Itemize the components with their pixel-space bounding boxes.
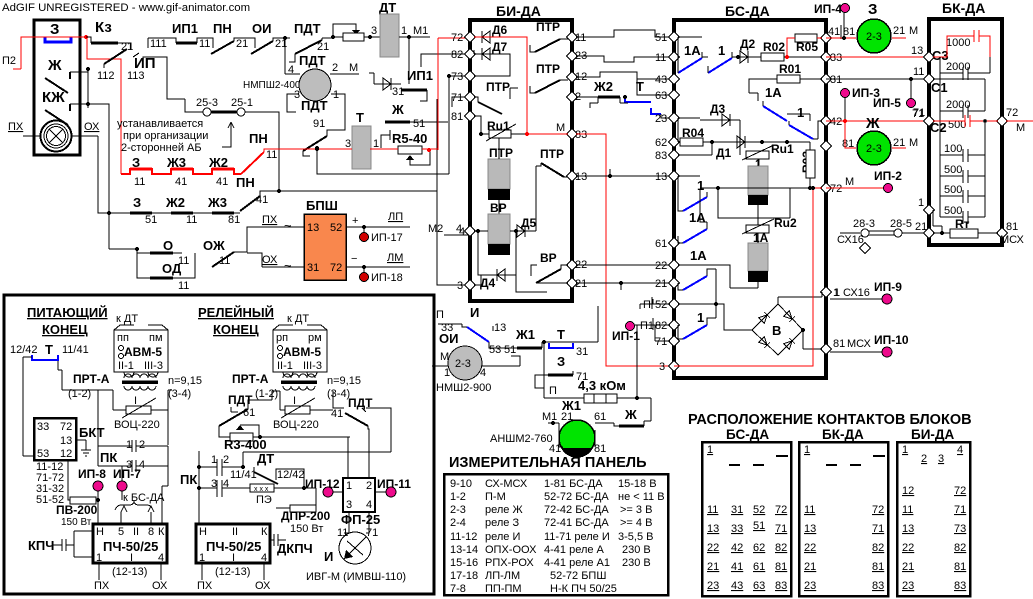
svg-text:ИП-9: ИП-9: [874, 280, 902, 294]
svg-text:n=9,15: n=9,15: [327, 375, 361, 387]
svg-text:82: 82: [872, 542, 884, 554]
svg-text:21: 21: [902, 561, 914, 573]
svg-text:К: К: [261, 526, 268, 538]
svg-text:61: 61: [655, 238, 667, 250]
svg-text:11: 11: [266, 149, 277, 161]
svg-text:61: 61: [243, 407, 255, 419]
svg-text:8: 8: [148, 526, 154, 538]
svg-text:М: М: [1016, 122, 1025, 134]
svg-text:ПТР: ПТР: [536, 62, 560, 76]
svg-text:1: 1: [444, 367, 450, 379]
svg-text:М: М: [556, 122, 565, 134]
pin 1: [923, 204, 934, 215]
wires ФП-25 to lamp: [344, 512, 369, 533]
wire lamp left: [23, 135, 40, 137]
svg-text:КПЧ: КПЧ: [28, 538, 54, 553]
svg-text:В: В: [772, 323, 781, 338]
svg-text:1: 1: [902, 444, 908, 456]
contact ПДТ diagonal: [295, 40, 322, 54]
svg-text:72: 72: [60, 421, 72, 433]
wire ДТ right: [399, 36, 430, 38]
svg-text:ИВГ-М (ИМВШ-110): ИВГ-М (ИМВШ-110): [306, 571, 406, 583]
svg-text:1: 1: [707, 444, 713, 456]
svg-text:500: 500: [944, 184, 962, 196]
contact 1А top: [678, 58, 702, 73]
block АВМ-5 right: [273, 330, 327, 372]
wire T right hook: [381, 130, 390, 148]
contact 1А mid: [763, 106, 787, 121]
svg-text:ОХ: ОХ: [262, 254, 278, 266]
relay НМПШ2-400 body: [299, 69, 331, 101]
svg-text:Д4: Д4: [480, 276, 496, 290]
wire ИП-4 vert: [842, 36, 846, 40]
wire 72 row inside: [700, 187, 822, 189]
svg-text:~: ~: [284, 218, 292, 233]
svg-text:ПДТ: ПДТ: [301, 98, 328, 113]
svg-text:Ж2: Ж2: [593, 79, 613, 94]
svg-text:2-3: 2-3: [455, 358, 471, 370]
red row bars: [121, 169, 163, 174]
svg-text:ИП-7: ИП-7: [113, 467, 141, 481]
svg-text:ПВ-200: ПВ-200: [56, 503, 98, 517]
svg-text:РАСПОЛОЖЕНИЕ КОНТАКТОВ БЛОКОВ: РАСПОЛОЖЕНИЕ КОНТАКТОВ БЛОКОВ: [688, 412, 972, 428]
svg-text:ВР: ВР: [490, 201, 507, 215]
block ФП-25: [343, 478, 375, 512]
svg-text:3: 3: [346, 499, 352, 511]
svg-text:ЛП: ЛП: [388, 211, 403, 223]
svg-text:23: 23: [707, 580, 719, 592]
svg-text:СХ16: СХ16: [843, 287, 870, 299]
wire 112 down: [103, 64, 105, 68]
svg-text:3: 3: [345, 138, 351, 150]
svg-text:72: 72: [775, 504, 787, 516]
svg-text:21: 21: [655, 278, 667, 290]
svg-text:КОНЕЦ: КОНЕЦ: [213, 322, 259, 337]
svg-text:ИП-18: ИП-18: [371, 272, 403, 284]
svg-text:33: 33: [830, 52, 842, 64]
svg-text:4-41 реле А1: 4-41 реле А1: [544, 557, 610, 569]
svg-text:73: 73: [954, 523, 966, 535]
svg-text:31: 31: [830, 74, 842, 86]
svg-text:4: 4: [366, 499, 372, 511]
svg-text:72: 72: [1006, 107, 1018, 119]
svg-text:Т: Т: [557, 327, 565, 342]
svg-text:2-3: 2-3: [450, 504, 466, 516]
svg-text:пм: пм: [149, 332, 163, 344]
svg-text:3: 3: [457, 280, 463, 292]
svg-text:83: 83: [954, 580, 966, 592]
svg-text:13-14: 13-14: [450, 544, 478, 556]
ground symbol: [76, 440, 91, 456]
svg-text:ПРТ-А: ПРТ-А: [232, 372, 269, 386]
wire bridge right-81: [803, 330, 822, 349]
svg-text:ПТР: ПТР: [540, 147, 564, 161]
diode ИП1: [383, 78, 401, 90]
svg-text:ПРТ-А: ПРТ-А: [73, 372, 110, 386]
БС-ДА right pins: [820, 25, 855, 355]
svg-text:1-2: 1-2: [450, 491, 466, 503]
wire pot to ДТ: [364, 36, 380, 38]
red М83 out: [576, 134, 670, 366]
svg-text:Д6: Д6: [492, 23, 508, 37]
wire 22-22: [576, 264, 670, 266]
svg-text:23: 23: [804, 580, 816, 592]
svg-text:13: 13: [707, 523, 719, 535]
svg-text:41: 41: [175, 176, 187, 188]
svg-text:ОИ: ОИ: [252, 21, 271, 36]
black web mid: [317, 148, 449, 174]
wire П52 left: [640, 299, 670, 309]
svg-text:52: 52: [330, 222, 342, 234]
svg-text:13: 13: [60, 435, 72, 447]
svg-text:11/41: 11/41: [230, 469, 257, 481]
note arrow: [222, 122, 234, 147]
table body: [444, 474, 668, 595]
frame wires right coil: [280, 391, 344, 410]
svg-text:72: 72: [830, 183, 842, 195]
pin 21: [923, 227, 934, 238]
svg-text:Ж2: Ж2: [165, 195, 185, 210]
svg-text:72: 72: [954, 485, 966, 497]
contact ПТР left: [478, 102, 502, 114]
svg-text:73: 73: [451, 71, 463, 83]
svg-text:72: 72: [330, 262, 342, 274]
svg-text:О: О: [163, 238, 173, 253]
svg-text:I: I: [130, 552, 133, 564]
wire lamp right: [72, 135, 98, 137]
red drop to Ж lamp: [845, 121, 856, 148]
frame wires left coil: [98, 390, 172, 445]
svg-text:82: 82: [451, 49, 463, 61]
svg-text:31: 31: [731, 504, 743, 516]
svg-text:ОИ: ОИ: [439, 331, 458, 346]
svg-text:I: I: [293, 395, 296, 407]
БИ-ДА left pins: [451, 31, 476, 290]
wire red П2 up: [13, 37, 87, 69]
svg-text:52-72 БПШ: 52-72 БПШ: [550, 570, 606, 582]
svg-text:М2: М2: [428, 223, 443, 235]
contact ВР bottom: [536, 269, 561, 283]
svg-text:П: П: [436, 309, 444, 321]
svg-text:2-3: 2-3: [866, 31, 882, 43]
svg-text:31: 31: [576, 346, 588, 358]
svg-text:x x x: x x x: [254, 486, 269, 493]
table БК-ДА box: [799, 442, 888, 596]
svg-text:БИ-ДА: БИ-ДА: [911, 427, 955, 442]
svg-text:4-41 реле А: 4-41 реле А: [544, 544, 605, 556]
svg-text:З: З: [868, 1, 877, 18]
svg-text:МСХ: МСХ: [1000, 234, 1024, 246]
svg-text:42: 42: [731, 542, 743, 554]
svg-text:ПТР: ПТР: [486, 80, 510, 94]
junction: [84, 35, 88, 39]
svg-text:2: 2: [139, 439, 145, 451]
svg-text:28-5: 28-5: [890, 218, 912, 230]
svg-text:БК-ДА: БК-ДА: [822, 427, 864, 442]
wire 11-23 between blocks: [576, 30, 670, 37]
wire М2: [444, 234, 470, 236]
wire НМПШ 3-1 frame: [287, 94, 345, 112]
svg-text:Ж: Ж: [391, 102, 404, 117]
wire to bridge: [716, 304, 752, 330]
svg-text:13: 13: [902, 523, 914, 535]
svg-text:БК-ДА: БК-ДА: [942, 0, 985, 16]
svg-text:2: 2: [921, 453, 927, 465]
svg-text:АНШМ2-760: АНШМ2-760: [490, 433, 553, 445]
test point ИП-17: [362, 225, 366, 229]
contact Ж bar: [619, 425, 644, 428]
svg-text:ИП-3: ИП-3: [852, 86, 880, 100]
svg-text:R5-40: R5-40: [392, 131, 427, 146]
svg-text:23: 23: [655, 113, 667, 125]
svg-text:21: 21: [236, 38, 248, 50]
svg-text:МСХ: МСХ: [847, 338, 871, 350]
red wire Ж right: [892, 147, 906, 149]
contact 1 top: [708, 58, 732, 73]
wire to pot: [322, 37, 345, 38]
svg-text:II: II: [133, 526, 139, 538]
svg-text:(1-2): (1-2): [255, 388, 278, 400]
svg-text:150 Вт: 150 Вт: [290, 523, 323, 535]
svg-text:53: 53: [37, 448, 49, 460]
svg-text:Д3: Д3: [710, 102, 726, 116]
svg-text:ПХ: ПХ: [262, 214, 278, 226]
svg-text:Д5: Д5: [521, 216, 537, 230]
svg-text:4: 4: [480, 367, 486, 379]
svg-text:11: 11: [178, 280, 189, 292]
svg-text:31: 31: [392, 86, 404, 98]
svg-text:(3-4): (3-4): [327, 388, 350, 400]
svg-text:1: 1: [199, 552, 205, 564]
svg-text:М: М: [440, 351, 449, 363]
svg-text:31: 31: [307, 262, 319, 274]
contact Ж: [45, 72, 70, 93]
block БК-ДА body: [929, 19, 1002, 245]
svg-text:ЛП-ЛМ: ЛП-ЛМ: [485, 570, 520, 582]
wire ПДТ91 to red node: [303, 112, 345, 156]
svg-text:к БС-ДА: к БС-ДА: [123, 492, 165, 504]
wire 113: [143, 57, 185, 99]
svg-text:100: 100: [944, 143, 962, 155]
svg-text:2-сторонней АБ: 2-сторонней АБ: [121, 142, 202, 154]
svg-text:11: 11: [804, 504, 815, 516]
svg-text:2-3: 2-3: [866, 143, 882, 155]
svg-text:ПП-ПМ: ПП-ПМ: [485, 583, 522, 595]
wire НМПШ left down: [284, 38, 286, 74]
svg-text:Ж: Ж: [47, 57, 62, 74]
wire Кз right down: [118, 43, 131, 49]
svg-text:R3-400: R3-400: [224, 437, 267, 452]
svg-text:21: 21: [893, 137, 905, 149]
svg-text:1: 1: [804, 444, 810, 456]
svg-text:63: 63: [753, 580, 765, 592]
svg-text:Т: Т: [356, 110, 364, 125]
svg-text:13: 13: [911, 45, 923, 57]
svg-text:НМПШ2-400: НМПШ2-400: [243, 80, 301, 91]
svg-text:к ДТ: к ДТ: [116, 313, 138, 325]
svg-text:13: 13: [804, 523, 816, 535]
wire 21-21: [576, 282, 670, 284]
svg-text:БПШ: БПШ: [306, 198, 338, 213]
svg-text:рп: рп: [276, 332, 288, 344]
contact КЖ: [45, 104, 70, 125]
svg-text:ПДТ: ПДТ: [294, 21, 321, 36]
svg-text:2: 2: [332, 62, 338, 74]
contact T blue bracket: [32, 355, 58, 360]
wire КЖ out long: [70, 103, 88, 105]
svg-text:22: 22: [902, 542, 914, 554]
wire 71 left stub: [655, 325, 670, 341]
svg-text:21: 21: [317, 41, 329, 53]
svg-text:43: 43: [731, 580, 743, 592]
relay coil Ru1: [748, 166, 768, 195]
svg-text:ПН: ПН: [236, 175, 255, 190]
svg-text:Д1: Д1: [716, 146, 732, 160]
wire НМПШ 2-М: [285, 73, 359, 75]
contact ОЖ diagonal: [212, 252, 234, 267]
svg-text:72-42 БС-ДА: 72-42 БС-ДА: [544, 504, 609, 516]
svg-text:ИЗМЕРИТЕЛЬНАЯ ПАНЕЛЬ: ИЗМЕРИТЕЛЬНАЯ ПАНЕЛЬ: [449, 455, 647, 471]
contact Ж2 bar: [598, 96, 620, 99]
svg-text:Ж: Ж: [865, 115, 880, 132]
svg-text:~: ~: [284, 258, 292, 273]
wire bridge top: [778, 292, 822, 304]
wire ЛМ: [346, 266, 410, 268]
wire down from Ж1: [543, 342, 545, 398]
svg-text:9-10: 9-10: [450, 478, 472, 490]
svg-text:15-18 В: 15-18 В: [618, 478, 657, 490]
svg-text:1: 1: [333, 89, 339, 101]
svg-text:(1-2): (1-2): [68, 388, 91, 400]
svg-text:БС-ДА: БС-ДА: [726, 427, 769, 442]
contact ПН red diagonal: [241, 152, 264, 174]
contact 1 mid: [789, 125, 813, 139]
wire 82-73 frame: [474, 50, 510, 76]
svg-text:81: 81: [872, 561, 884, 573]
svg-text:63: 63: [655, 90, 667, 102]
red wire 33-С3: [826, 56, 925, 58]
svg-text:51: 51: [504, 344, 516, 356]
svg-text:81: 81: [954, 561, 966, 573]
svg-text:1: 1: [126, 439, 132, 451]
svg-text:71: 71: [954, 504, 966, 516]
svg-text:1-81 БС-ДА: 1-81 БС-ДА: [544, 478, 603, 490]
svg-text:51: 51: [655, 32, 667, 44]
svg-text:РПХ-РОХ: РПХ-РОХ: [485, 557, 534, 569]
svg-text:72-41 БС-ДА: 72-41 БС-ДА: [544, 517, 609, 529]
test point ИП-3: [841, 89, 850, 98]
svg-text:81: 81: [833, 338, 845, 350]
svg-text:11: 11: [186, 214, 197, 226]
svg-text:71: 71: [775, 523, 787, 535]
svg-text:71: 71: [872, 523, 884, 535]
svg-text:11/41: 11/41: [62, 344, 89, 356]
svg-text:ПХ: ПХ: [197, 580, 213, 592]
svg-text:БКТ: БКТ: [79, 425, 105, 440]
svg-text:3: 3: [659, 361, 665, 373]
wire pin1: [933, 210, 942, 226]
svg-text:52: 52: [753, 504, 765, 516]
svg-text:М: М: [349, 62, 358, 74]
svg-text:AdGIF UNREGISTERED - www.gif-a: AdGIF UNREGISTERED - www.gif-animator.co…: [2, 2, 250, 14]
svg-text:И: И: [470, 305, 479, 320]
svg-text:1А: 1А: [689, 210, 706, 225]
svg-text:АВМ-5: АВМ-5: [283, 345, 321, 359]
junction: [283, 36, 287, 40]
wire red down-right: [87, 37, 121, 174]
svg-text:11: 11: [913, 66, 924, 78]
svg-text:21: 21: [707, 561, 719, 573]
svg-text:ДТ: ДТ: [257, 451, 274, 466]
svg-text:ИП-12: ИП-12: [305, 477, 340, 491]
svg-text:ПЭ: ПЭ: [256, 494, 272, 506]
svg-text:ОХ: ОХ: [84, 121, 100, 133]
svg-text:71: 71: [451, 92, 463, 104]
svg-text:ФП-25: ФП-25: [341, 512, 380, 527]
svg-text:ОПХ-ООХ: ОПХ-ООХ: [485, 544, 537, 556]
contact И blue diagonal: [467, 327, 489, 342]
contact ПДТ-91 diagonal: [303, 136, 327, 151]
svg-text:25-3: 25-3: [196, 97, 218, 109]
svg-text:ОД: ОД: [162, 261, 182, 276]
wire ЛП: [346, 226, 410, 228]
svg-text:150 Вт: 150 Вт: [61, 517, 92, 528]
left verticals: [108, 121, 110, 249]
contact 1 bottom: [683, 325, 707, 339]
svg-text:С2: С2: [930, 120, 947, 135]
svg-text:I: I: [232, 552, 235, 564]
svg-text:Н: Н: [96, 526, 104, 538]
svg-text:71: 71: [913, 107, 925, 119]
svg-text:не < 11 В: не < 11 В: [618, 491, 665, 503]
svg-text:I: I: [134, 395, 137, 407]
svg-text:Д2: Д2: [740, 37, 756, 51]
svg-text:81: 81: [594, 443, 606, 455]
svg-text:Ru1: Ru1: [771, 142, 794, 156]
table БС-ДА box: [702, 442, 791, 596]
svg-text:1: 1: [833, 287, 839, 299]
svg-text:ОХ: ОХ: [152, 580, 168, 592]
wire pin3: [437, 191, 470, 285]
svg-text:ВОЦ-220: ВОЦ-220: [114, 419, 160, 431]
svg-text:РЕЛЕЙНЫЙ: РЕЛЕЙНЫЙ: [198, 305, 274, 320]
resistor ПВ-200: [70, 497, 96, 504]
svg-text:при организации: при организации: [123, 130, 208, 142]
svg-text:ПХ: ПХ: [94, 580, 110, 592]
pin 72 М right: [996, 115, 1007, 126]
resistor 4,3 кОм body: [584, 394, 617, 403]
svg-text:23: 23: [902, 580, 914, 592]
red wire inside to М83: [474, 37, 568, 134]
block ПЧ-50/25 left: [93, 524, 167, 563]
wire 73 row: [449, 75, 469, 77]
svg-text:П: П: [643, 299, 651, 311]
svg-text:С1: С1: [931, 80, 948, 95]
svg-text:12/42: 12/42: [277, 469, 305, 481]
wire 13-13: [576, 175, 670, 177]
block ПЧ-50/25 right: [196, 524, 270, 563]
svg-text:1: 1: [96, 552, 102, 564]
svg-text:230 В: 230 В: [622, 544, 651, 556]
wire 22 row: [678, 265, 758, 288]
lamp symbol: [41, 121, 72, 152]
svg-text:Д7: Д7: [492, 40, 508, 54]
wire М1 down: [408, 37, 410, 84]
svg-text:22: 22: [655, 260, 667, 272]
svg-text:500: 500: [944, 164, 962, 176]
pin 81 МСХ: [996, 227, 1007, 238]
svg-text:М: М: [845, 176, 854, 188]
